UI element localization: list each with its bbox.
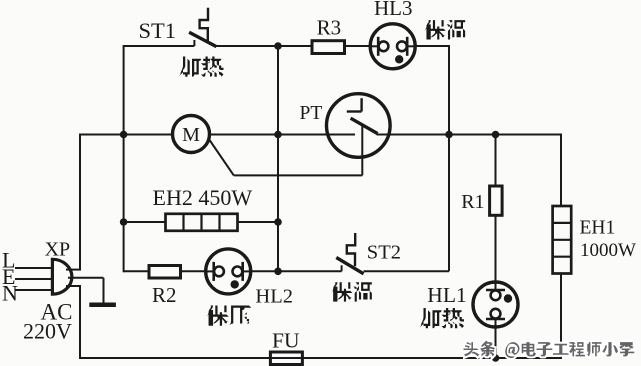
- svg-text:EH1: EH1: [580, 218, 616, 239]
- svg-text:XP: XP: [45, 238, 71, 260]
- svg-text:220V: 220V: [23, 319, 72, 344]
- svg-text:FU: FU: [272, 329, 300, 353]
- svg-text:ST1: ST1: [139, 18, 177, 43]
- svg-text:PT: PT: [300, 103, 323, 124]
- svg-text:1000W: 1000W: [580, 240, 636, 261]
- svg-text:R1: R1: [461, 191, 484, 213]
- svg-text:R2: R2: [152, 283, 177, 307]
- svg-text:HL1: HL1: [427, 283, 466, 307]
- svg-text:N: N: [2, 280, 18, 305]
- svg-text:HL2: HL2: [255, 286, 293, 308]
- svg-text:ST2: ST2: [367, 242, 401, 264]
- svg-text:EH2 450W: EH2 450W: [153, 185, 253, 210]
- svg-text:R3: R3: [317, 15, 342, 39]
- svg-text:HL3: HL3: [374, 0, 413, 20]
- svg-text:M: M: [182, 124, 200, 146]
